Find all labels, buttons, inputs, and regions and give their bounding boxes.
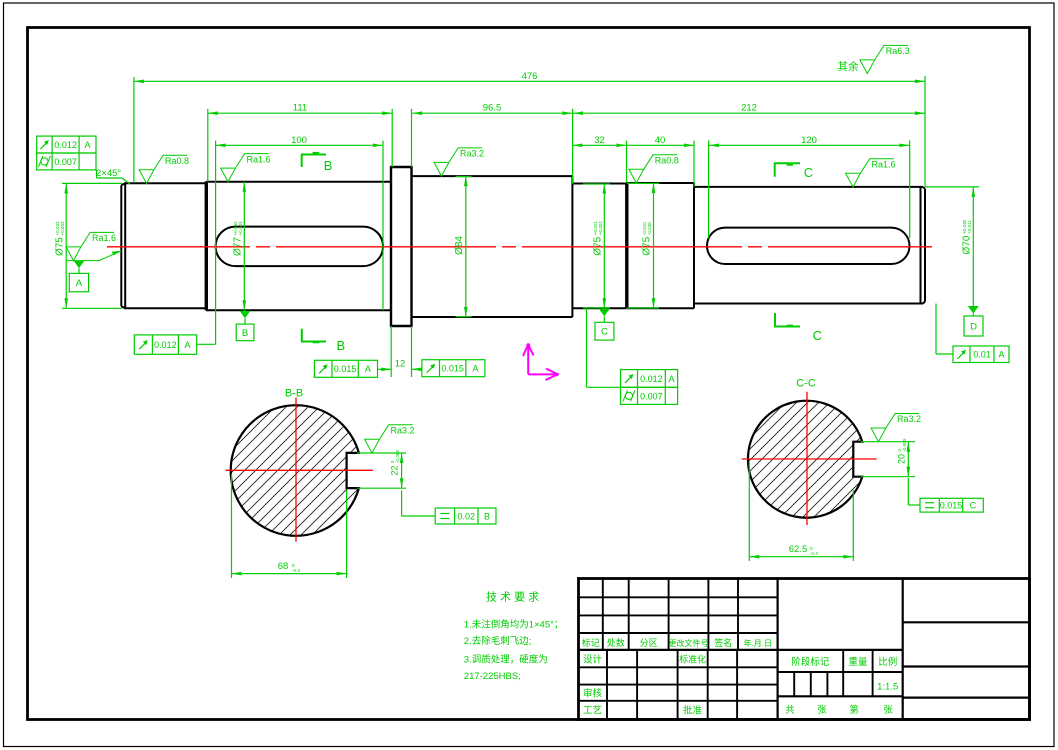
section C-C roughness Ra3.2 xyxy=(871,414,919,442)
svg-text:-0.3: -0.3 xyxy=(810,551,818,556)
dim Ø75(32) edge ticks xyxy=(583,183,610,185)
svg-text:476: 476 xyxy=(522,71,538,82)
svg-text:96.5: 96.5 xyxy=(483,103,502,114)
roughness Ra3.2 section3 xyxy=(434,148,482,176)
svg-text:0.012: 0.012 xyxy=(154,340,177,350)
svg-text:更改文件号: 更改文件号 xyxy=(669,638,709,648)
svg-text:签名: 签名 xyxy=(714,637,732,648)
roughness Ra0.8 section1 xyxy=(139,155,187,183)
svg-text:1.未注倒角均为1×45°；: 1.未注倒角均为1×45°； xyxy=(464,619,564,631)
leader lower-left frame xyxy=(197,343,216,345)
svg-text:处数: 处数 xyxy=(607,637,625,648)
dim 100 line xyxy=(216,144,383,146)
dim 120 right extension xyxy=(909,140,911,238)
shaft section 1 Ø75 left end with chamfer xyxy=(121,183,206,308)
dim 22 extensions xyxy=(357,452,406,454)
main centerline xyxy=(107,246,932,248)
svg-text:Ø75: Ø75 xyxy=(55,237,66,256)
title block grid xyxy=(579,579,1030,720)
dim 100 left extension / frame leader xyxy=(215,141,217,345)
svg-text:+0.002: +0.002 xyxy=(598,221,603,236)
frame circular-runout 0.012 A / cylindricity 0.007 (upper left) xyxy=(37,136,96,153)
svg-text:设计: 设计 xyxy=(583,654,603,666)
svg-text:Ø77: Ø77 xyxy=(233,237,244,256)
dim Ø75 left line xyxy=(65,183,67,308)
svg-text:Ø75: Ø75 xyxy=(593,236,604,255)
section B-B crosshair xyxy=(226,469,373,471)
section mark C bottom xyxy=(775,313,800,326)
leader parallelism C-C xyxy=(908,504,920,506)
svg-text:分区: 分区 xyxy=(640,638,658,648)
section B-B hatched body xyxy=(231,405,359,536)
shaft section 5 Ø75 (40) xyxy=(627,183,694,308)
svg-text:0.01: 0.01 xyxy=(973,350,991,360)
shaft section 6 Ø70 with right chamfer xyxy=(694,187,925,304)
datum C xyxy=(599,309,610,317)
dim 22 line xyxy=(401,453,403,488)
svg-text:标记: 标记 xyxy=(582,637,600,648)
svg-text:32: 32 xyxy=(594,135,605,146)
shoulder step thick line x=206 xyxy=(205,182,208,311)
svg-text:B: B xyxy=(242,328,248,339)
svg-text:217-225HBS;: 217-225HBS; xyxy=(464,671,521,682)
leader 2x45 chamfer xyxy=(96,170,98,178)
svg-text:Ø70: Ø70 xyxy=(962,235,973,254)
dim 111 left extension xyxy=(207,109,209,182)
svg-text:阶段标记: 阶段标记 xyxy=(791,656,830,668)
section C-C hatched body xyxy=(748,401,862,518)
svg-text:0.007: 0.007 xyxy=(640,391,663,401)
dim Ø70 line xyxy=(972,187,974,306)
svg-text:Ø75: Ø75 xyxy=(642,236,653,255)
dim 100 right extension xyxy=(382,141,384,311)
svg-text:20: 20 xyxy=(897,454,907,464)
svg-text:比例: 比例 xyxy=(878,656,897,668)
svg-text:120: 120 xyxy=(801,135,817,146)
svg-text:D: D xyxy=(970,322,977,333)
svg-text:-0.063: -0.063 xyxy=(395,450,400,463)
dim Ø75(40) edge ticks xyxy=(627,182,659,184)
keyway slot left (100 long) xyxy=(216,227,383,267)
frame runout 0.015 A (right of flange) xyxy=(422,360,485,377)
dim Ø75(32) line xyxy=(603,184,605,309)
svg-text:+0.003: +0.003 xyxy=(60,221,65,236)
svg-text:12: 12 xyxy=(395,359,406,370)
svg-text:共: 共 xyxy=(785,705,795,716)
flange left extension xyxy=(391,109,393,167)
svg-text:Ra3.2: Ra3.2 xyxy=(391,426,415,436)
datum A xyxy=(74,261,85,269)
svg-text:0.015: 0.015 xyxy=(441,364,464,374)
svg-text:C-C: C-C xyxy=(796,378,816,390)
dim Ø70 extension top xyxy=(925,186,979,188)
svg-text:A: A xyxy=(85,140,91,150)
svg-text:Ra3.2: Ra3.2 xyxy=(460,149,484,159)
svg-text:0.015: 0.015 xyxy=(940,501,963,511)
svg-text:C: C xyxy=(970,501,977,511)
dim Ø77 line xyxy=(243,182,245,310)
dim 62.5 extensions xyxy=(748,462,750,561)
frame runout 0.01 A (right) xyxy=(953,346,1009,363)
flange right extension xyxy=(411,109,413,167)
svg-text:Ø84: Ø84 xyxy=(454,236,465,255)
section C-C crosshair xyxy=(742,458,877,460)
roughness Ra1.6 section6 xyxy=(846,159,894,187)
dim 96.5 line xyxy=(412,112,572,114)
svg-text:张: 张 xyxy=(817,705,827,716)
svg-text:B-B: B-B xyxy=(285,388,303,400)
dim 120 left extension xyxy=(708,140,710,238)
dim 68 extensions xyxy=(231,474,233,578)
svg-text:Ra0.8: Ra0.8 xyxy=(165,156,189,166)
svg-text:22: 22 xyxy=(390,465,400,475)
datum B xyxy=(240,311,251,319)
frame runout 0.012 A (lower left) xyxy=(134,335,196,354)
dim Ø84 line xyxy=(465,176,467,317)
dim 20 extensions xyxy=(861,441,915,443)
svg-text:A: A xyxy=(185,340,191,350)
svg-text:A: A xyxy=(998,350,1004,360)
frame runout 0.015 A (left of flange) xyxy=(314,360,377,377)
dim 62.5 line xyxy=(749,556,853,558)
svg-text:Ra1.6: Ra1.6 xyxy=(872,159,896,169)
svg-text:0.015: 0.015 xyxy=(334,364,357,374)
leader right frame xyxy=(936,353,953,355)
svg-text:年.月.日: 年.月.日 xyxy=(744,638,772,648)
svg-text:2×45°: 2×45° xyxy=(96,168,121,179)
svg-text:+0.011: +0.011 xyxy=(967,220,972,234)
svg-text:Ra0.8: Ra0.8 xyxy=(655,156,679,166)
shaft section 3 Ø84 xyxy=(412,176,573,317)
roughness Ra1.6 left leader xyxy=(66,232,114,260)
svg-text:68: 68 xyxy=(278,561,289,572)
svg-text:40: 40 xyxy=(655,135,666,146)
svg-text:1:1.5: 1:1.5 xyxy=(877,682,898,693)
frame runout 0.012 A / cylindricity 0.007 (below C) xyxy=(621,370,678,388)
dim 12 extensions xyxy=(390,326,392,377)
svg-text:张: 张 xyxy=(883,705,893,716)
ucs axes icon xyxy=(523,344,558,380)
svg-text:B: B xyxy=(337,338,346,353)
roughness Ra6.3 general xyxy=(860,45,908,73)
svg-text:-0.3: -0.3 xyxy=(292,568,300,573)
svg-text:C: C xyxy=(813,328,822,343)
dim 12 arrows xyxy=(378,368,392,370)
svg-text:-0.045: -0.045 xyxy=(647,222,652,235)
svg-text:+0.003: +0.003 xyxy=(238,221,243,236)
svg-text:第: 第 xyxy=(849,704,859,716)
dim 476/212 right extension xyxy=(924,76,926,187)
frame parallelism 0.015 C xyxy=(920,498,983,512)
datum D xyxy=(968,306,979,314)
svg-text:212: 212 xyxy=(741,103,757,114)
flange collar xyxy=(391,167,412,326)
svg-text:0.012: 0.012 xyxy=(54,140,77,150)
svg-text:0.02: 0.02 xyxy=(458,511,476,521)
svg-text:111: 111 xyxy=(293,103,307,114)
svg-text:Ra6.3: Ra6.3 xyxy=(886,46,910,56)
dim Ø75(32) text xyxy=(593,221,604,256)
svg-text:B: B xyxy=(484,511,490,521)
svg-text:100: 100 xyxy=(291,135,307,146)
svg-text:批准: 批准 xyxy=(683,705,703,717)
dim Ø84 edge ticks xyxy=(456,176,472,178)
dim 111 line xyxy=(208,112,392,114)
dim 476 line xyxy=(134,80,925,82)
section mark B top xyxy=(302,155,326,168)
dim Ø75 left text xyxy=(55,221,66,256)
shaft section 2 Ø77 keyway section xyxy=(206,182,391,310)
svg-text:其余: 其余 xyxy=(838,60,859,73)
dim 212 line xyxy=(573,112,925,114)
svg-text:工艺: 工艺 xyxy=(583,706,602,717)
dim Ø70 text xyxy=(962,219,973,254)
dim 20 text xyxy=(897,438,907,464)
svg-text:C: C xyxy=(804,165,813,180)
dim Ø77 text xyxy=(233,221,244,256)
svg-text:0.007: 0.007 xyxy=(54,157,77,167)
dim Ø75 left extensions xyxy=(62,182,122,184)
dim 476 left extension xyxy=(133,77,135,183)
dim 120 line xyxy=(709,144,910,146)
leader frame below C xyxy=(586,309,588,388)
dim Ø84 text xyxy=(454,236,465,255)
dim 40 line xyxy=(627,144,695,146)
dim 40 right extension xyxy=(693,141,695,187)
svg-text:A: A xyxy=(76,278,83,289)
svg-text:Ra1.6: Ra1.6 xyxy=(92,233,116,243)
svg-text:C: C xyxy=(601,327,608,338)
keyway slot right (120 section) xyxy=(707,228,910,264)
dim Ø75(40) line xyxy=(653,183,655,308)
svg-text:62.5: 62.5 xyxy=(789,544,808,555)
dim 32 line xyxy=(572,144,626,146)
section B-B roughness Ra3.2 xyxy=(365,425,413,453)
dim 22 text xyxy=(390,450,400,476)
svg-text:技 术 要 求: 技 术 要 求 xyxy=(486,591,539,604)
dim ext x=572.6 xyxy=(572,109,574,184)
section mark B bottom xyxy=(302,329,326,342)
leader parallelism B-B xyxy=(402,515,436,517)
svg-text:2.去除毛刺飞边;: 2.去除毛刺飞边; xyxy=(464,635,532,647)
dim 68 line xyxy=(232,573,347,575)
svg-text:B: B xyxy=(324,158,333,173)
shaft section 4 Ø75 (32) xyxy=(572,184,626,309)
svg-text:0.012: 0.012 xyxy=(640,374,663,384)
shoulder step thick line x=626.5 xyxy=(625,183,628,308)
svg-text:Ra1.6: Ra1.6 xyxy=(247,154,271,164)
svg-text:3.调质处理，硬度为: 3.调质处理，硬度为 xyxy=(464,654,548,666)
section mark C top xyxy=(775,163,800,177)
dim 20 line xyxy=(907,442,909,477)
svg-text:重量: 重量 xyxy=(848,656,868,668)
roughness Ra1.6 section2 xyxy=(221,154,269,182)
svg-text:A: A xyxy=(668,374,674,384)
svg-text:审核: 审核 xyxy=(583,688,603,700)
roughness Ra0.8 section5 xyxy=(629,155,677,183)
svg-text:A: A xyxy=(365,364,371,374)
frame parallelism 0.02 B xyxy=(435,508,496,524)
svg-text:A: A xyxy=(472,364,478,374)
svg-text:标准化: 标准化 xyxy=(679,654,706,665)
svg-text:Ra3.2: Ra3.2 xyxy=(897,414,921,424)
svg-text:-0.065: -0.065 xyxy=(902,438,907,451)
dim 32 right extension xyxy=(626,141,628,183)
dim Ø75(40) text xyxy=(642,222,653,256)
